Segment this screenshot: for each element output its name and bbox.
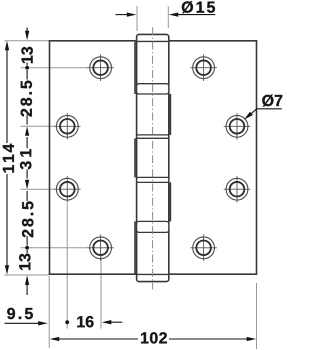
102 left arrow bbox=[50, 337, 60, 341]
hole E (203.6,67.7) bbox=[190, 54, 217, 81]
Ø15 label bbox=[182, 1, 215, 13]
102 right arrow bbox=[247, 337, 257, 341]
left dimension chain (x=27.1) bbox=[25, 28, 29, 296]
hole A (100.6,67.7) bbox=[87, 54, 114, 81]
plate left edge bbox=[49, 40, 51, 275]
hole B (67.3,126.3) bbox=[54, 113, 81, 140]
knuckle barrel bbox=[135, 34, 170, 281]
hole D (100.6,247.8) bbox=[87, 235, 114, 262]
label 16 bbox=[77, 316, 93, 327]
114 bottom arrow bbox=[5, 265, 9, 275]
hole H (203.6,247.8) bbox=[190, 235, 217, 262]
dimension 9.5 (bottom left) bbox=[5, 321, 48, 325]
knuckle joint band 2 bbox=[137, 135, 169, 138]
knuckle bottom cap line bbox=[137, 273, 169, 275]
dot at row1 bbox=[25, 66, 29, 70]
knuckle top cap line bbox=[137, 40, 169, 42]
ext line plate-top left bbox=[5, 40, 49, 42]
chain bottom arrow (13) bbox=[25, 275, 29, 285]
knuckle joint band 4 bbox=[137, 221, 169, 232]
ext line hole column outer-left down bbox=[66, 204, 68, 329]
16 arrow from right bbox=[102, 320, 112, 324]
dimension 102 (bottom) bbox=[50, 337, 257, 341]
ext line plate-left down bbox=[48, 276, 50, 348]
9.5 leader line bbox=[5, 322, 40, 324]
Ø15 right arrow and leader under text bbox=[177, 14, 215, 16]
barrel center line (dash-dot) bbox=[152, 27, 154, 289]
hole G (237.0,189.2) bbox=[224, 176, 251, 203]
label 102 bbox=[141, 332, 167, 343]
label 9.5 bbox=[7, 308, 33, 319]
ext line barrel left (Ø15) bbox=[136, 6, 138, 31]
plate right edge bbox=[256, 40, 258, 275]
knuckle step edge seg5 left bbox=[134, 221, 136, 274]
chain top arrow (13) bbox=[26, 28, 28, 33]
chain line segments bbox=[26, 62, 28, 65]
extension lines (light gray) bbox=[5, 6, 257, 349]
label 31 bbox=[20, 149, 31, 169]
ext line plate-bottom left bbox=[5, 274, 49, 276]
knuckle step edge seg4 right bbox=[169, 182, 171, 221]
ext line hole row 1 bbox=[21, 67, 89, 69]
ext line hole row 3 bbox=[21, 188, 56, 190]
Ø7 label bbox=[262, 94, 282, 106]
knuckle step edge seg2 right bbox=[169, 94, 171, 135]
31 top arrow at row2 bbox=[25, 126, 29, 136]
hinge leaf plate outline bbox=[49, 40, 258, 275]
screw holes bbox=[54, 54, 250, 261]
label 13 (top) bbox=[21, 47, 32, 63]
label 114 bbox=[3, 144, 14, 173]
ext line barrel right (Ø15) bbox=[167, 6, 169, 28]
plate bottom edge bbox=[49, 273, 137, 275]
label 13 (bottom) bbox=[19, 254, 30, 270]
knuckle step edge seg1 left bbox=[134, 42, 136, 94]
102 line bbox=[57, 338, 138, 340]
31 bottom arrow at row3 bbox=[25, 180, 29, 190]
dimension Ø7 (leader to hole F) bbox=[244, 109, 282, 120]
ext line plate-right down bbox=[256, 283, 258, 349]
hole C (67.3,189.2) bbox=[54, 176, 81, 203]
Ø15 left arrow bbox=[116, 14, 129, 16]
dot at column 1 bbox=[65, 320, 69, 324]
ext line hole row 2 bbox=[21, 125, 56, 127]
hole F (237.0,126.3) bbox=[224, 113, 251, 140]
dot at row4 bbox=[25, 246, 29, 250]
label 28.5 (bottom) bbox=[22, 201, 33, 237]
barrel body bbox=[137, 34, 169, 281]
114 top arrow bbox=[5, 41, 9, 51]
Ø7 leader line bbox=[251, 109, 282, 114]
plate top edge bbox=[49, 40, 137, 42]
dimension 114 (x=7.0) bbox=[5, 41, 9, 275]
knuckle step edge seg3 left bbox=[134, 138, 136, 177]
ext line hole column inner-left down bbox=[100, 254, 102, 329]
dimension 16 bbox=[65, 320, 122, 324]
knuckle joint band 3 bbox=[137, 177, 169, 182]
label 28.5 (top) bbox=[21, 81, 32, 117]
knuckle joint band 1 bbox=[137, 84, 169, 94]
ext line hole row 4 bbox=[21, 247, 89, 249]
114 line bbox=[6, 49, 8, 143]
dimension Ø15 (top) bbox=[116, 12, 216, 16]
